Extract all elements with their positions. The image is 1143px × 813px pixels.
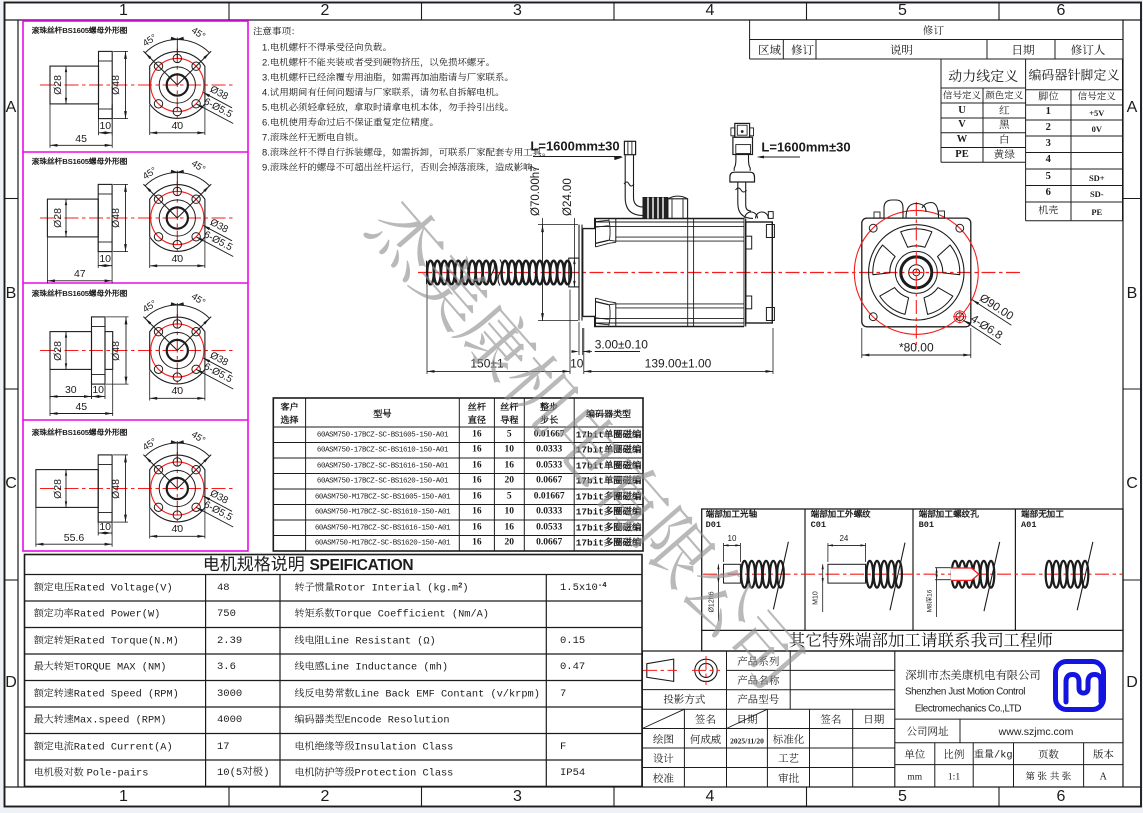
dim Ø70 (538, 224, 578, 226)
spec table title (203, 564, 414, 565)
dim Ø28 (65, 470, 67, 508)
inner circles (159, 200, 195, 236)
encoder cable tube (737, 182, 739, 203)
fan slots (901, 229, 932, 247)
company logo (1056, 662, 1104, 710)
model table rows (317, 434, 448, 436)
dim Ø48 (106, 316, 129, 318)
marked corner hole (956, 313, 964, 321)
L=1600 label 1 (530, 145, 619, 147)
dim Ø28 (65, 332, 67, 370)
dim Ø28 (65, 66, 67, 104)
dim Ø48 (113, 454, 128, 456)
inner circles (159, 470, 195, 506)
nut panel cy=218 (40, 217, 236, 219)
spec table rows (34, 587, 173, 589)
45deg lines and arc (177, 317, 211, 351)
inner drawing frame (5, 19, 1142, 21)
notes (253, 32, 301, 34)
units row (895, 764, 1123, 766)
dim 40 (149, 105, 151, 135)
cable gland (643, 197, 668, 218)
bolt circle red (151, 58, 204, 111)
ball screw nut panels magenta frame (23, 21, 248, 551)
length dims (49, 370, 51, 399)
length dims (98, 105, 100, 136)
rear crosshair (915, 202, 917, 345)
rear top silhouette (884, 200, 903, 218)
bolt circle red (151, 324, 204, 377)
grid labels (119, 10, 128, 12)
product labels (737, 661, 779, 663)
front cap detail (595, 218, 597, 247)
revision table (749, 20, 751, 59)
leader Ø38 (203, 92, 210, 97)
nut front view outline (150, 185, 205, 252)
leader 6-Ø5.5 (196, 507, 203, 512)
panel A01 (1046, 561, 1053, 588)
45deg lines and arc (177, 184, 211, 218)
nut panel cy=85 (40, 84, 236, 86)
title block grid (641, 651, 643, 787)
bolt holes (192, 328, 200, 336)
nut front view outline (150, 317, 205, 384)
nut panel cy=488.5 (40, 488, 236, 490)
length dims (97, 238, 99, 269)
length dims (97, 508, 99, 536)
company name (905, 674, 1041, 676)
bolt holes (192, 62, 200, 70)
motor body lines (596, 221, 744, 223)
rear red circle (854, 210, 978, 334)
dim Ø24 (573, 258, 575, 287)
watermark (355, 190, 811, 700)
inner circles (159, 67, 195, 103)
nut front view outline (150, 455, 205, 522)
model table headers (280, 406, 298, 408)
red centerline through panels (703, 573, 1122, 575)
nut front view outline (150, 52, 205, 119)
bolt circle red (151, 191, 204, 244)
bolt holes (192, 466, 200, 474)
end machining box (702, 509, 1123, 651)
grid ticks (228, 3, 230, 21)
inner circles (159, 332, 195, 368)
dim Ø48 (113, 183, 128, 185)
45deg lines and arc (177, 455, 211, 489)
dim 3.00 (578, 322, 580, 355)
nut panel cy=350.5 (40, 350, 236, 352)
encoder pin table (1025, 162, 1027, 221)
rear square flange (862, 218, 971, 327)
spec table (25, 555, 643, 787)
panel B01 (935, 567, 951, 569)
fan circle (869, 225, 964, 320)
dim 40 (149, 508, 151, 538)
encoder connector (735, 123, 750, 137)
rear clips (766, 225, 774, 238)
screw journal (569, 258, 579, 287)
ball screw coils (426, 261, 428, 285)
dim 40 (149, 370, 151, 400)
power cable connector stub (624, 141, 635, 154)
power cable tube elbow (625, 155, 643, 219)
encoder elbow gland (738, 203, 753, 218)
leader Ø38 (203, 225, 210, 230)
bolt circle red (151, 462, 204, 515)
leader 4-Ø6.8 (963, 320, 970, 325)
motor body outline (583, 219, 744, 327)
sign table texts (695, 719, 716, 721)
body mid verticals (687, 219, 689, 327)
motor flange (578, 225, 580, 321)
leader 6-Ø5.5 (196, 104, 203, 109)
screw break marks (491, 260, 495, 286)
corner holes (869, 224, 877, 232)
main red centerline (418, 272, 1022, 274)
leader Ø90.00 (972, 300, 979, 305)
hub circles (895, 251, 937, 293)
rear housing (745, 219, 747, 327)
model selection table (273, 398, 643, 551)
45deg lines and arc (177, 51, 211, 85)
panel D01 (724, 564, 741, 583)
bolt holes (192, 195, 200, 203)
L=1600 label 2 (761, 146, 850, 148)
projection symbols (647, 659, 674, 681)
bottom dims (426, 285, 428, 375)
sign table diagonals (642, 709, 684, 728)
website row (895, 718, 1123, 720)
dim *80.00 (861, 328, 863, 358)
panel C01 (828, 564, 866, 583)
dim Ø48 (113, 50, 128, 52)
dim Ø28 (65, 199, 67, 237)
dim 40 (149, 238, 151, 268)
leader Ø38 (203, 358, 210, 363)
leader 6-Ø5.5 (196, 237, 203, 242)
leader 6-Ø5.5 (196, 369, 203, 374)
leader Ø38 (203, 496, 210, 501)
power line table (940, 59, 942, 162)
